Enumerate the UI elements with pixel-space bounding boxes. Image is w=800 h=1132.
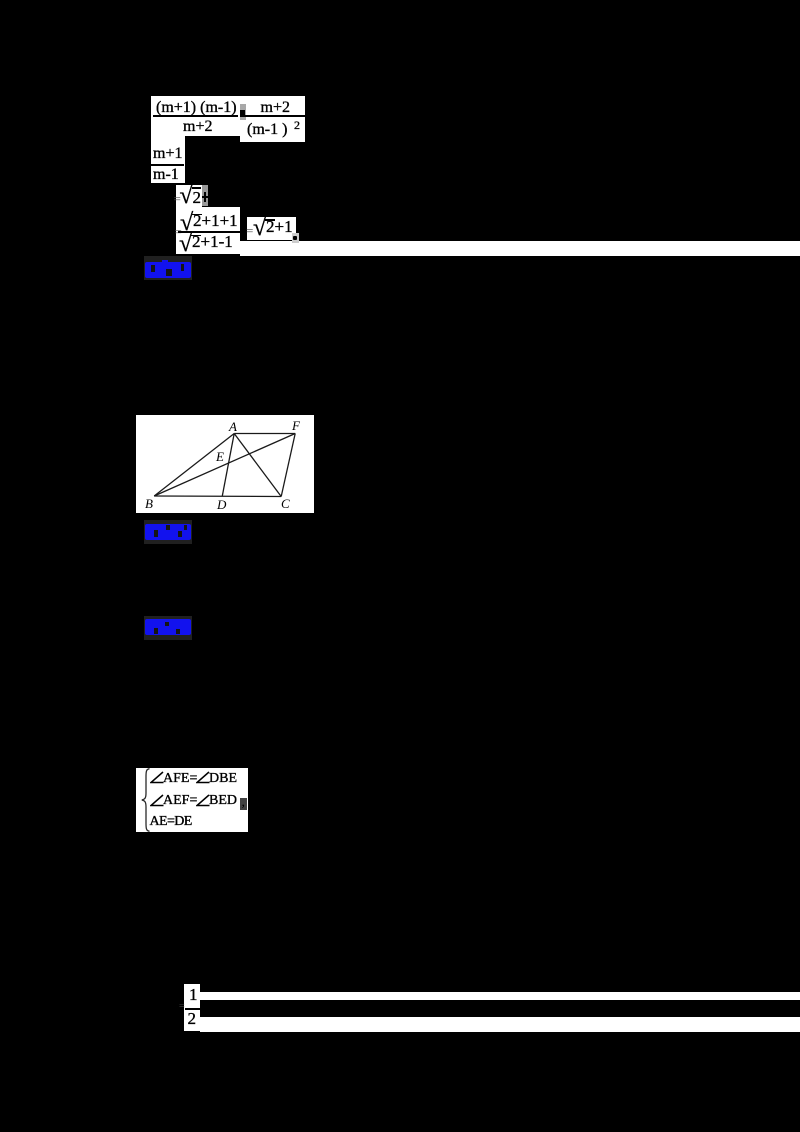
- svg-text:D: D: [216, 497, 227, 512]
- svg-text:E: E: [215, 449, 224, 464]
- svg-text:C: C: [281, 496, 290, 511]
- svg-text:B: B: [145, 496, 153, 511]
- svg-text:A: A: [228, 419, 237, 434]
- svg-text:F: F: [291, 418, 301, 433]
